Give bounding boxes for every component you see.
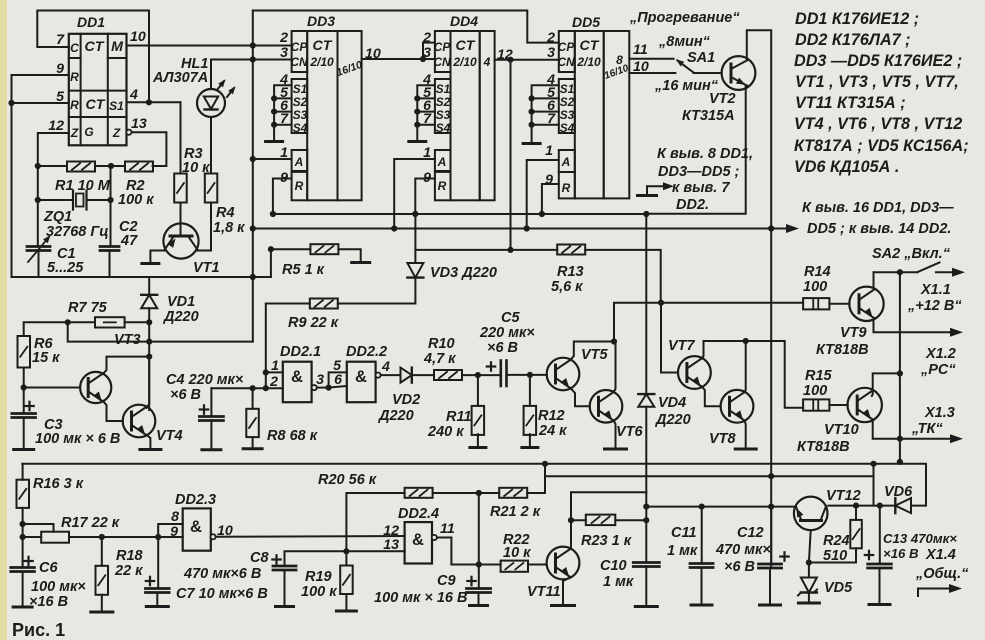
R19 chassis bar [336,610,356,613]
wire DD2.3 out to DD2.4 [216,535,405,538]
node master bottom [250,274,256,280]
VT6 chassis bar [605,448,627,451]
wire R6 to C3 [23,368,25,414]
IC DD3 outline [292,31,362,200]
wire R13 line [415,250,660,303]
resistor R12 [524,375,537,446]
note k vyv 8 [657,146,753,180]
svg-text:R11: R11 [446,409,472,425]
R4 label [213,205,245,236]
svg-text:к выв. 7: к выв. 7 [672,180,730,196]
wire C7 leads [156,537,159,605]
svg-text:R: R [70,70,79,84]
transistor VT3 [80,372,111,403]
wire VT12 emitter [809,530,811,577]
svg-text:2/10: 2/10 [452,55,477,69]
svg-text:„8мин“: „8мин“ [658,34,711,50]
svg-text:„Прогревание“: „Прогревание“ [629,10,740,26]
VT5 label [581,347,609,363]
svg-text:DD2.4: DD2.4 [398,506,439,522]
wire DD4 R riser [415,179,435,215]
node VT34 coll [146,354,152,360]
transistor VT6 [590,390,623,423]
svg-text:S2: S2 [436,95,451,109]
node R17 wiper [20,521,26,527]
DD5 ground [523,142,540,145]
C8 plus [272,555,280,563]
wire C13 top lead [879,506,881,564]
svg-text:R7 75: R7 75 [68,300,108,316]
DD2.4 pins [383,521,455,553]
svg-text:DD3: DD3 [307,13,335,29]
C7 chassis bar [146,605,168,608]
svg-text:DD5 ; к выв. 14 DD2.: DD5 ; к выв. 14 DD2. [807,221,951,237]
wire C11 leads [701,507,703,604]
C13 chassis bar [869,603,890,606]
svg-text:CT: CT [85,39,105,55]
wire C3 bottom [23,418,25,449]
svg-text:S1: S1 [560,82,574,96]
svg-text:R: R [562,181,571,195]
R11 label [427,409,472,440]
svg-text:VD1: VD1 [167,294,195,310]
wire LED to R4 [210,117,212,174]
svg-text:470 мк×: 470 мк× [715,542,771,558]
svg-text:CP: CP [558,40,575,54]
resistor R19 [340,551,353,609]
C12 chassis bar [760,604,781,607]
svg-text:R19: R19 [305,569,332,585]
svg-text:„+12 В“: „+12 В“ [907,298,962,314]
resistor R4 [205,174,218,203]
svg-text:×16 В: ×16 В [883,546,919,561]
wire DD1 pin4 S1 [127,101,181,103]
C4 label [166,372,244,403]
X1.1 arrow [936,268,965,277]
node pin1 [263,369,269,375]
svg-text:КТ818В: КТ818В [797,439,850,455]
wire R1 left lead [38,165,67,167]
svg-text:VD2: VD2 [392,392,420,408]
DD1 pin numbers [48,29,147,134]
wire VT11 collector [570,520,573,549]
node R24 top [853,503,859,509]
svg-text:&: & [355,368,367,386]
C9 plus [467,577,475,585]
C8 chassis bar [276,605,294,608]
svg-text:10: 10 [130,29,146,45]
svg-text:×6 В: ×6 В [724,559,755,575]
svg-text:VT7: VT7 [668,338,696,354]
svg-text:100 мк × 16 В: 100 мк × 16 В [374,590,467,606]
svg-text:АЛ307А: АЛ307А [152,70,208,86]
R15 label [803,368,833,399]
svg-text:DD1 К176ИЕ12 ;: DD1 К176ИЕ12 ; [795,10,919,28]
trimmer R17 [23,524,69,543]
DD3 cell letters [290,38,363,193]
gate DD2.1 [283,362,312,403]
VD2 label [377,392,420,424]
C1 label [47,246,84,276]
capacitor C7 [146,589,170,593]
note k vyv 16 line1 [802,200,954,216]
svg-text:VD3 Д220: VD3 Д220 [430,265,497,281]
node L2 left [611,338,617,344]
R20 label [318,472,377,488]
VT8 chassis bar [735,448,756,451]
DD2.1 pins [269,358,279,390]
svg-text:10 к: 10 к [503,545,531,561]
node pin13 R20 [343,548,349,554]
X1.2 arrow [950,328,963,337]
svg-text:R5 1 к: R5 1 к [282,262,325,278]
svg-text:Z: Z [70,126,79,140]
node X13 [897,436,903,442]
R7 label [68,300,108,316]
wire R17 line [23,536,183,538]
VT4 chassis bar [140,448,161,451]
R9 label [288,315,339,331]
wire plus bus [253,228,787,230]
wire R15 to VT10 [829,404,847,406]
svg-text:CP: CP [434,40,451,54]
wire DD5 R riser [542,184,559,214]
svg-text:470 мк×6 В: 470 мк×6 В [183,566,261,582]
wire L1 riser [614,303,803,342]
X1.4 label [915,547,969,582]
C6 plus [24,557,32,565]
C11 chassis bar [691,604,712,607]
wire VT7 emitter to VT8 [702,387,721,407]
wire DD1 pin12 Z [38,133,69,247]
resistor R7 [95,317,125,327]
svg-text:CN: CN [290,55,308,69]
diode VD1 [141,277,157,410]
svg-text:100 к: 100 к [301,584,337,600]
LED HL1 [197,89,225,117]
transistor VT9 [849,287,883,321]
svg-text:100 мк × 6 В: 100 мк × 6 В [35,431,120,447]
R1 label [55,178,111,194]
wire R3 to VT1 base [180,203,182,237]
wire C5 to VT5 [507,374,547,376]
HL1 emission arrows [217,79,236,97]
wire VD4 chain link [571,492,646,520]
note k vyv 7 arrow [647,182,674,194]
wire DD5 pin10 [629,72,675,74]
wire VT10 collector link [872,373,900,396]
svg-text:11: 11 [440,521,455,537]
DD3 S-bus nodes [271,95,277,127]
X1.3 arrow [950,434,963,443]
wire VT2 emitter to R bus [646,86,747,214]
DD1 cell letters [70,39,124,140]
node R23 left [568,517,574,523]
wire VD2 to R10 [412,374,434,376]
wire R21 right [527,492,545,494]
wire C6 bottom [22,572,24,606]
svg-text:100 к: 100 к [118,192,154,208]
C7 plus [146,577,154,585]
DD3 S-bus [274,85,292,140]
svg-text:R: R [295,179,304,193]
svg-text:&: & [412,531,424,549]
DD2.3 out circle [211,534,216,539]
svg-text:×6 В: ×6 В [170,387,201,403]
wire C10 bottom [645,567,647,606]
svg-text:×6 В: ×6 В [487,340,518,356]
wire R20 R21 mid [433,492,500,494]
svg-text:C10: C10 [600,558,627,574]
svg-text:VT10: VT10 [824,422,859,438]
capacitor C11 [690,564,713,568]
svg-text:S4: S4 [293,121,308,135]
switch SA1 lever [676,59,694,72]
wire C4 bottom [210,421,212,449]
X1.3 label [911,405,955,437]
svg-text:К выв. 16 DD1, DD3—: К выв. 16 DD1, DD3— [802,200,954,216]
wire DD1 pin13 Z to R2 [131,132,166,166]
svg-text:C4 220 мк×: C4 220 мк× [166,372,244,388]
node C7 pin8 [155,534,161,540]
C7 label [176,586,268,602]
node R2021 [476,490,482,496]
node VT7 base L1 [658,300,664,306]
scan edge strip [0,0,7,640]
svg-text:C: C [70,41,79,55]
svg-text:DD3—DD5 ;: DD3—DD5 ; [658,164,740,180]
svg-text:A: A [437,155,447,169]
node DD4 A bus [391,225,397,231]
wire DD4 A riser [394,159,435,229]
svg-text:&: & [190,518,202,536]
DD4 S-bus [417,85,435,140]
capacitor C3 [12,414,36,418]
DD4 cell letters [433,38,490,193]
capacitor C13 [868,564,892,568]
svg-text:CN: CN [557,55,575,69]
resistor R1 [67,162,95,172]
C13 label [883,531,957,561]
IC DD4 outline [435,31,495,200]
VD6 label [884,484,913,500]
svg-text:DD5: DD5 [572,14,600,30]
svg-text:4: 4 [129,87,138,103]
svg-text:SA2 „Вкл.“: SA2 „Вкл.“ [872,246,951,262]
wire VT8 emitter [745,421,746,448]
resistor R20 [405,488,433,498]
R12 label [538,408,567,439]
svg-text:100 мк×: 100 мк× [31,579,86,595]
wire DD2.1 out to DD2.2 [317,372,347,387]
svg-text:1 мк: 1 мк [667,543,698,559]
svg-text:15 к: 15 к [32,350,60,366]
capacitor C1 variable [27,235,51,262]
capacitor C4 [199,417,223,421]
svg-text:220 мк×: 220 мк× [479,325,535,341]
svg-text:R18: R18 [116,548,144,564]
wire oscillator bottom line [12,276,271,278]
R5 label [282,262,325,278]
DD2.1 label [280,344,321,360]
wire VD5 bottom [808,593,810,602]
svg-text:C6: C6 [39,560,58,576]
zener VD5 [798,578,817,596]
svg-text:VT4: VT4 [156,428,183,444]
VT12 label [826,488,861,504]
node M line master [250,42,256,48]
node plus bus rail [768,225,774,231]
resistor R21 [499,488,527,498]
wire C9 bottom [478,593,480,605]
wire DD5 pin11 [629,58,673,60]
C4 plus [200,405,208,413]
svg-text:CT: CT [456,38,476,54]
R18 label [114,548,144,579]
R17 label [61,515,120,531]
node VT12 base C11 [699,504,705,510]
svg-text:240 к: 240 к [427,424,464,440]
DD3 ground [266,140,283,143]
svg-text:S3: S3 [560,108,575,122]
svg-text:„Общ.“: „Общ.“ [915,566,969,582]
svg-text:S4: S4 [560,121,575,135]
SA2 label [872,246,951,262]
node DD4 out drop [507,57,513,63]
wire R24 leads [809,506,856,563]
R10 label [423,336,456,367]
wire C13 riser [873,476,875,505]
DD1 label [77,14,105,30]
wire DD1 pin9 to left rail [12,75,69,277]
svg-text:S1: S1 [436,82,450,96]
svg-text:DD2 К176ЛА7 ;: DD2 К176ЛА7 ; [795,31,911,49]
R18 chassis bar [91,611,113,614]
resistor R15 [803,399,829,410]
resistor R24 [850,520,862,548]
resistor R6 [18,336,31,368]
svg-text:C11: C11 [671,525,697,541]
DD2.2 pin4 [381,359,390,375]
R2 label [118,178,154,208]
C6 chassis bar [13,606,32,609]
X1.2 label [920,346,956,378]
wire DD2.4 out drop [437,538,501,565]
svg-text:R20 56 к: R20 56 к [318,472,377,488]
svg-text:Д220: Д220 [377,408,414,424]
svg-text:2/10: 2/10 [309,55,334,69]
R8 chassis bar [243,447,262,450]
svg-text:R24: R24 [823,533,850,549]
C12 label [715,525,771,575]
ZQ1 label [43,209,109,240]
wire top rail DD1.7 loop [37,11,149,103]
svg-text:VT11 КТ315А ;: VT11 КТ315А ; [795,94,906,112]
transistor VT5 [547,358,580,391]
wire H1 bus [22,464,926,506]
capacitor C8 [273,566,296,570]
node R12 tap [527,372,533,378]
VT4 label [156,428,183,444]
svg-text:VT5: VT5 [581,347,609,363]
svg-text:„ТК“: „ТК“ [911,421,943,437]
svg-text:S2: S2 [560,95,575,109]
svg-text:ZQ1: ZQ1 [43,209,72,225]
svg-text:R12: R12 [538,408,565,424]
svg-text:×16 В: ×16 В [29,594,68,610]
DD2.4 label [398,506,439,522]
node DD1 pin5 rail [8,100,14,106]
node R18 top [99,534,105,540]
transistor VT12 [794,497,828,531]
svg-text:VD6: VD6 [884,484,913,500]
svg-text:C8: C8 [250,550,269,566]
svg-text:24 к: 24 к [538,423,567,439]
svg-text:R23 1 к: R23 1 к [581,533,632,549]
X1.1 label [907,282,962,314]
svg-text:R9 22 к: R9 22 к [288,315,339,331]
svg-text:VT4 , VT6 , VT8 , VT12: VT4 , VT6 , VT8 , VT12 [794,115,962,133]
svg-text:CN: CN [433,55,451,69]
resistor R16 [17,464,30,568]
node ZQ1 left [35,197,41,203]
R3 label [182,146,210,176]
IC DD5 outline [559,31,630,198]
resistor R13 [557,245,585,255]
resistor R2 [125,162,153,172]
svg-text:A: A [294,155,304,169]
svg-text:VT9: VT9 [840,325,867,341]
svg-text:13: 13 [131,116,147,132]
wire lower link [68,322,253,341]
resistor R14 [803,298,829,309]
wire C4 riser [210,388,212,416]
svg-text:S1: S1 [109,99,124,113]
wire R bus [273,213,646,215]
wire VT8 collector [745,341,746,392]
wire VT7 collector [702,341,803,408]
wire VT3 emitter to VT4 [103,401,123,421]
svg-text:X1.2: X1.2 [925,346,956,362]
node plus bus master [250,225,256,231]
svg-text:DD4: DD4 [450,13,478,29]
VT1 label [193,260,220,276]
svg-text:9: 9 [170,524,178,540]
node SA2 [897,269,903,275]
transistor VT7 [678,356,711,389]
svg-text:M: M [111,39,124,55]
svg-text:100: 100 [803,279,827,295]
svg-text:К выв. 8 DD1,: К выв. 8 DD1, [657,146,753,162]
R22 label [503,532,531,561]
node CN master [250,56,256,62]
R11 chassis bar [470,446,486,449]
capacitor C6 [11,568,35,572]
node H1 H2riser [870,461,876,467]
DD4 label [450,13,478,29]
resistor R10 [434,370,462,380]
svg-text:R14: R14 [804,264,831,280]
svg-text:4: 4 [381,359,390,375]
node X12 link [897,370,903,376]
X1.4 arrow [918,584,962,596]
svg-text:VT3: VT3 [114,332,141,348]
wire R22 to VT11 [528,564,547,566]
svg-text:CT: CT [313,38,333,54]
wire ZQ1 line [38,199,111,201]
svg-text:CT: CT [580,38,600,54]
VT8 label [709,431,737,447]
